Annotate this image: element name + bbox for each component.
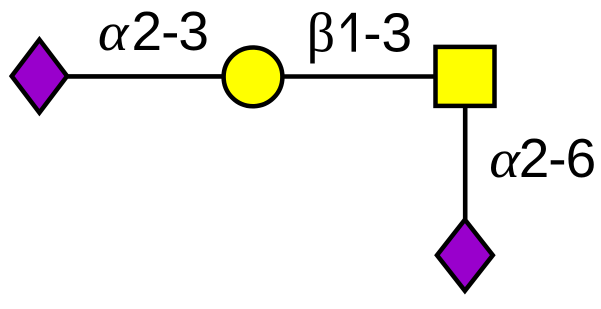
svg-text:β: β: [307, 3, 336, 65]
svg-text:2-3: 2-3: [132, 0, 209, 62]
monosaccharide Neu5Ac (purple diamond, bottom): [437, 220, 493, 291]
wire: GalNAc(a2-6) to Neu5Ac: [463, 104, 468, 220]
monosaccharide GalNAc (yellow square): [436, 47, 495, 106]
monosaccharide Gal (yellow circle): [224, 47, 283, 106]
linkage label b1-3: digit 1 flag: [341, 13, 351, 28]
svg-text:α: α: [489, 130, 521, 190]
wire: Gal(b1-3) to GalNAc: [280, 74, 437, 79]
svg-text:-3: -3: [363, 2, 412, 64]
wire: Neu5Ac(a2-3) to Gal: [66, 74, 226, 79]
svg-text:α: α: [98, 3, 130, 63]
svg-text:2-6: 2-6: [519, 127, 596, 189]
monosaccharide Neu5Ac (purple diamond, left): [12, 40, 67, 113]
linkage label b1-3: digit 1 stem: [352, 13, 357, 52]
